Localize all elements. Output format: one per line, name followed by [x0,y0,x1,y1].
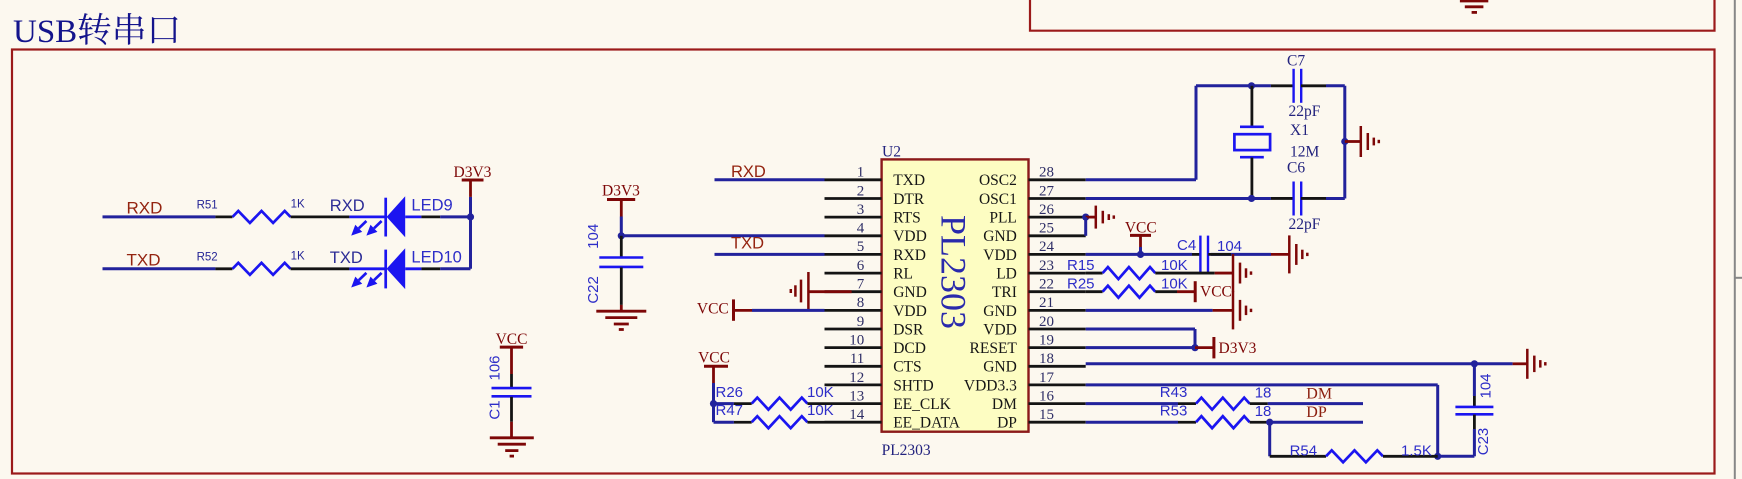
crystal X1 12M [1234,86,1319,199]
wire pin28 to crystal loop [1086,86,1345,180]
svg-text:GND: GND [983,303,1017,320]
svg-text:R52: R52 [197,251,218,263]
svg-text:22pF: 22pF [1289,216,1321,233]
svg-text:TXD: TXD [330,249,363,267]
svg-text:CTS: CTS [893,359,921,376]
wire RXD left [103,215,216,218]
pin 12 SHTD [825,370,934,395]
svg-text:14: 14 [849,407,865,423]
svg-text:U2: U2 [882,143,901,160]
svg-text:18: 18 [1255,385,1272,402]
pin 4 VDD [825,221,927,246]
svg-text:104: 104 [1217,238,1242,255]
svg-text:5: 5 [857,239,865,255]
power port D3V3 (LED rail) [454,164,492,197]
pin 18 GND [983,351,1085,376]
capacitor C7 22pF [1271,53,1326,121]
LED LED10 [349,248,461,289]
svg-text:D3V3: D3V3 [1219,340,1257,357]
svg-text:SHTD: SHTD [893,377,933,394]
op-amp U2 PL2303 (IC body) [882,143,1029,459]
svg-text:4: 4 [857,221,865,237]
pin 27 OSC1 [979,183,1086,208]
svg-text:DP: DP [997,415,1017,432]
svg-text:1.5K: 1.5K [1401,442,1432,459]
svg-text:10K: 10K [807,384,834,401]
svg-text:PL2303: PL2303 [934,215,974,329]
svg-text:OSC2: OSC2 [979,172,1017,189]
pin 5 RXD [825,239,926,264]
wire pin27 to crystal loop [1086,86,1345,199]
svg-text:USB: USB [13,14,77,50]
wire pin17 to R54/C23 [1086,385,1475,456]
LED LED9 [349,196,452,237]
svg-text:2: 2 [857,183,865,199]
svg-text:10K: 10K [807,402,834,419]
ground (R15) [1215,254,1251,292]
svg-text:25: 25 [1039,221,1054,237]
svg-text:15: 15 [1039,407,1054,423]
svg-text:VDD: VDD [983,321,1017,338]
svg-text:LED9: LED9 [411,197,452,215]
pin 20 VDD [983,314,1085,339]
ground (C1) [490,422,534,456]
power port VCC (R26/R47) [698,350,730,384]
svg-text:C1: C1 [487,400,504,419]
svg-text:19: 19 [1039,332,1054,348]
svg-text:6: 6 [857,258,865,274]
junction crystal bottom [1248,195,1255,202]
junction LED9/D3V3 [467,213,474,220]
svg-text:20: 20 [1039,314,1054,330]
svg-text:GND: GND [983,228,1017,245]
svg-text:C23: C23 [1475,428,1492,456]
svg-text:RL: RL [893,265,913,282]
power port D3V3 (pin19) [1195,337,1257,358]
ground (upper section) [1460,1,1488,12]
junction VCC/R26 [710,400,717,407]
svg-text:18: 18 [1255,403,1272,420]
svg-text:VDD: VDD [983,247,1017,264]
svg-text:24: 24 [1039,239,1055,255]
svg-text:R51: R51 [197,200,218,212]
capacitor C1 106 [487,355,532,421]
pin 9 DSR [825,314,925,339]
svg-text:EE_CLK: EE_CLK [893,396,951,413]
svg-text:TRI: TRI [992,284,1017,301]
svg-text:DTR: DTR [893,191,925,208]
svg-text:TXD: TXD [731,235,764,253]
svg-text:26: 26 [1039,202,1055,218]
wire pin21 to ground [1086,309,1213,312]
resistor R52 1K [197,250,350,274]
svg-text:PL2303: PL2303 [882,442,931,459]
resistor R47 10K [716,402,834,428]
junction D3V3/C22 [618,232,625,239]
svg-text:10K: 10K [1161,257,1188,274]
svg-text:RXD: RXD [893,247,926,264]
wire pin24/C4 [1086,247,1271,254]
pin 7 GND [825,277,927,302]
wire VCC to pin8 [752,309,825,312]
svg-text:28: 28 [1039,165,1054,181]
svg-text:10: 10 [849,332,864,348]
ground (pin21) [1213,291,1251,329]
svg-text:LED10: LED10 [411,248,461,266]
wire VCC rail to R26/R47 [714,383,734,422]
resistor R43 18 [1160,384,1272,409]
svg-text:12: 12 [849,370,864,386]
svg-text:VCC: VCC [1200,284,1232,301]
ground (pin18) [1513,349,1546,379]
svg-text:C4: C4 [1177,237,1196,254]
svg-text:1: 1 [857,165,865,181]
svg-text:VCC: VCC [496,331,528,348]
sheet edge line [1735,0,1742,479]
ground (pin26 PLL) [1086,206,1114,229]
svg-text:VDD3.3: VDD3.3 [964,377,1017,394]
svg-text:PLL: PLL [989,210,1017,227]
pin 19 RESET [970,332,1086,357]
svg-text:1K: 1K [291,250,305,262]
junction pin18/C23 [1471,360,1478,367]
wire TXD left [103,267,216,270]
resistor R51 1K [197,199,350,223]
pin 6 RL [825,258,914,283]
wire pin18 GND rail [1086,362,1513,365]
wire RXD to pin1 [715,178,825,181]
power port D3V3 (C22) [602,183,640,217]
svg-text:EE_DATA: EE_DATA [893,415,961,432]
pin 16 DM [992,388,1086,413]
svg-text:RXD: RXD [731,163,766,181]
svg-text:DP: DP [1306,404,1327,421]
pin 10 DCD [825,332,926,357]
svg-text:3: 3 [857,202,865,218]
svg-text:D3V3: D3V3 [454,164,492,181]
wire pin15 to DP [1086,421,1363,424]
junction crystal top [1248,82,1255,89]
junction pin26 [1082,214,1089,221]
svg-text:RXD: RXD [127,199,163,218]
svg-text:27: 27 [1039,183,1055,199]
power port VCC (pin24) [1125,220,1157,248]
svg-text:11: 11 [850,351,864,367]
wire TXD to pin5 [715,253,825,256]
svg-text:R43: R43 [1160,384,1188,401]
pin 23 LD [996,258,1085,283]
wire D3V3 rail vertical [469,197,472,269]
resistor R53 18 [1160,403,1272,429]
ground (C22) [596,305,646,330]
pin 25 GND [983,221,1085,246]
wire to D3V3 rail [421,215,470,218]
svg-text:R47: R47 [716,402,744,419]
pin 3 RTS [825,202,921,227]
svg-text:106: 106 [487,355,504,380]
svg-text:18: 18 [1039,351,1054,367]
pin 17 VDD3.3 [964,370,1086,395]
resistor R25 10K [1067,276,1188,298]
svg-text:13: 13 [849,388,864,404]
pin 8 VDD [825,295,927,320]
sheet box (upper schematic section, partial) [1030,0,1715,31]
pin 2 DTR [825,183,925,208]
svg-text:RXD: RXD [330,197,365,215]
svg-text:RESET: RESET [970,340,1018,357]
svg-text:GND: GND [893,284,927,301]
svg-text:10K: 10K [1161,276,1188,293]
svg-text:C6: C6 [1287,160,1305,177]
svg-text:C22: C22 [585,276,602,304]
capacitor C4 104 [1177,236,1242,274]
resistor R54 1.5K [1270,442,1438,462]
svg-text:16: 16 [1039,388,1055,404]
svg-text:GND: GND [983,359,1017,376]
svg-text:1K: 1K [291,199,305,211]
svg-text:104: 104 [585,224,602,249]
svg-text:VCC: VCC [698,350,730,367]
wire D3V3 to pin4 [621,217,824,236]
svg-text:R15: R15 [1067,257,1095,274]
junction crystal ground [1341,138,1348,145]
svg-text:LD: LD [996,265,1017,282]
resistor R15 10K [1067,257,1215,279]
power port VCC (R25) [1177,281,1232,302]
svg-text:R54: R54 [1290,442,1318,459]
svg-text:22pF: 22pF [1289,103,1321,120]
pin 28 OSC2 [979,165,1086,190]
ground (crystal) [1345,126,1379,157]
svg-text:R53: R53 [1160,403,1188,420]
pin 1 TXD [825,165,926,190]
svg-text:X1: X1 [1290,122,1309,139]
svg-text:OSC1: OSC1 [979,191,1017,208]
pin 14 EE_DATA [825,407,961,432]
ground (C4) [1271,235,1307,273]
svg-text:DM: DM [1306,386,1332,403]
svg-text:TXD: TXD [893,172,925,189]
wire pin20-pin19 link [1086,329,1195,348]
pin 21 GND [983,295,1085,320]
pin 15 DP [997,407,1086,432]
svg-text:8: 8 [857,295,865,311]
svg-text:17: 17 [1039,370,1055,386]
svg-text:VDD: VDD [893,303,927,320]
wire DP to R54 [1268,422,1271,456]
pin 13 EE_CLK [825,388,952,413]
svg-text:21: 21 [1039,295,1054,311]
svg-text:104: 104 [1478,373,1495,398]
svg-text:7: 7 [857,277,865,293]
svg-text:9: 9 [857,314,865,330]
power port VCC (pin8) [697,299,752,320]
svg-text:DSR: DSR [893,321,924,338]
pin 11 CTS [825,351,922,376]
junction DP/R54 [1266,419,1273,426]
pin 22 TRI [992,277,1086,302]
capacitor C23 104 [1455,364,1494,457]
capacitor C22 104 [585,224,643,305]
svg-text:R26: R26 [716,384,744,401]
wire pin25-pin26 link [1084,217,1087,236]
svg-text:DM: DM [992,396,1017,413]
svg-text:RTS: RTS [893,210,921,227]
svg-text:12M: 12M [1290,144,1320,161]
svg-text:22: 22 [1039,277,1054,293]
junction R54/C23 [1434,453,1441,460]
wire pin16 to DM [1086,402,1363,405]
svg-text:VCC: VCC [697,301,729,318]
svg-text:D3V3: D3V3 [602,183,640,200]
pin 26 PLL [989,202,1085,227]
ground (pin7) [791,272,852,310]
title USB转串口 [13,13,178,50]
junction VCC/pin24 [1137,251,1144,258]
wire to D3V3 rail [421,267,470,270]
svg-text:23: 23 [1039,258,1054,274]
junction pin19 [1191,344,1198,351]
svg-text:C7: C7 [1287,53,1305,70]
svg-text:DCD: DCD [893,340,926,357]
pin 24 VDD [983,239,1085,264]
capacitor C6 22pF [1271,160,1326,234]
svg-text:VDD: VDD [893,228,927,245]
svg-text:TXD: TXD [127,251,161,270]
svg-text:R25: R25 [1067,276,1095,293]
resistor R26 10K [716,384,834,410]
power port VCC (C1) [496,331,528,374]
